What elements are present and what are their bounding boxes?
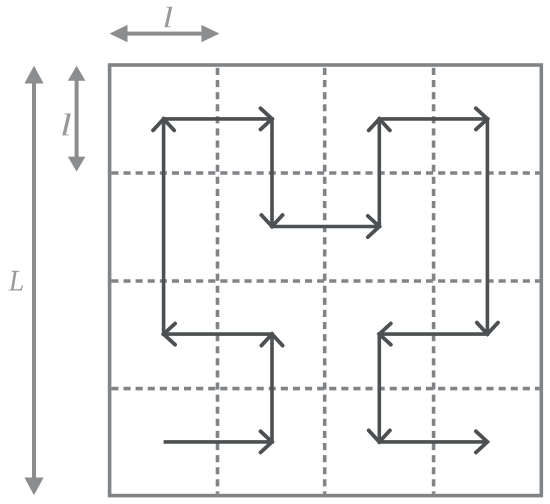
arrowhead down at (379.3,441.9) (369, 430, 390, 442)
vertical grid line 1 (216, 67, 220, 494)
arrowhead right at (487.4,118.9) (476, 108, 488, 129)
hilbert curve path (164, 119, 488, 442)
label L (9, 271, 23, 291)
horizontal grid line 1 (111, 171, 539, 175)
arrowhead right at (272,118.9) (261, 108, 273, 129)
horizontal grid line 3 (111, 387, 539, 391)
horizontal grid line 2 (111, 279, 539, 283)
label l (top) (164, 7, 172, 27)
arrowhead right at (379.3,226.5) (368, 216, 380, 237)
arrowhead down at (272,226.5) (261, 215, 282, 227)
label l (left) (62, 113, 71, 135)
arrowhead up at (379.3,118.9) (369, 119, 390, 130)
arrowhead right at (487.4,441.9) (476, 431, 488, 452)
arrowhead left at (163.6,334.1) (164, 324, 176, 345)
left small l dimension arrow (double-headed vertical) (68, 66, 86, 172)
outer square border (110, 65, 542, 496)
arrowhead right at (272,441.9) (261, 431, 273, 452)
vertical grid line 2 (323, 67, 327, 494)
top l dimension arrow (double-headed horizontal) (110, 25, 220, 42)
arrowhead up at (272,334.1) (261, 334, 282, 346)
arrowhead left at (379.3,334.1) (379, 324, 391, 345)
arrowhead up at (163.6,118.9) (153, 119, 174, 130)
left L dimension arrow (long double-headed vertical) (24, 66, 43, 496)
vertical grid line 3 (432, 67, 436, 494)
arrowhead down at (487.4,334.1) (477, 323, 498, 335)
